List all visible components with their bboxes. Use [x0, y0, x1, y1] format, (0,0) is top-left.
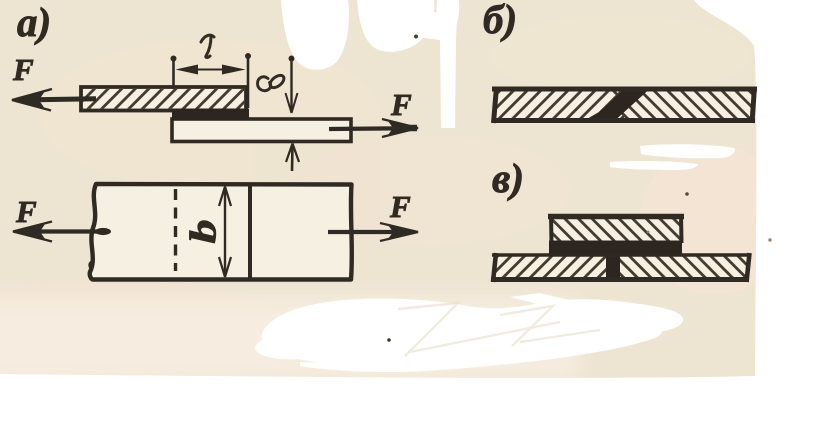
speck in right margin — [768, 238, 771, 241]
dimension double arrow l — [176, 65, 246, 75]
arrow F right (plan) — [328, 223, 419, 241]
scarf dark seam — [586, 90, 649, 120]
bottom plates bar — [491, 253, 750, 282]
tiny dark speck in white-out — [387, 338, 391, 342]
dimension tick left — [171, 56, 177, 90]
adhesive layer (dark) — [172, 109, 249, 121]
svg-text:б): б) — [483, 0, 517, 42]
upper plate (hatched) — [81, 87, 246, 111]
label delta (rotated, hand drawn) — [258, 73, 287, 91]
arrow F right — [329, 119, 419, 137]
svg-text:в): в) — [492, 155, 524, 201]
plate outline (plan view) — [90, 184, 352, 280]
butt gap dark — [606, 254, 620, 278]
arrow F left — [11, 89, 96, 111]
up arrow under lower plate — [286, 144, 299, 172]
svg-text:b: b — [184, 219, 225, 243]
label l (script ell) — [201, 35, 214, 57]
cover strap (top plate) — [548, 214, 684, 243]
solid line (end of overlap) — [248, 184, 252, 279]
dashed line (glue line start) — [174, 189, 177, 271]
svg-text:F: F — [390, 87, 412, 122]
ghost pencil strokes under white-out — [398, 303, 600, 356]
"7"-shaped white streak — [400, 12, 457, 128]
svg-text:а): а) — [17, 0, 51, 45]
top middle patches — [281, 0, 349, 70]
svg-text:F: F — [15, 194, 37, 229]
svg-text:F: F — [389, 189, 411, 224]
delta dimension line with down arrow — [286, 56, 298, 114]
svg-text:F: F — [12, 52, 34, 87]
stray ink dot — [685, 192, 689, 196]
bottom scribbles (white-out mass) — [262, 299, 684, 365]
adhesive layer under strap (dark) — [549, 241, 682, 256]
right mid streaks — [640, 144, 735, 158]
lower plate — [172, 119, 351, 142]
small squiggle at lower-left edge — [89, 262, 91, 272]
bar outline — [492, 87, 757, 92]
scarf joint bar — [492, 87, 757, 123]
dimension tick right — [245, 53, 251, 108]
width dimension arrow b — [219, 187, 231, 278]
arrow F left (plan) — [12, 222, 111, 242]
